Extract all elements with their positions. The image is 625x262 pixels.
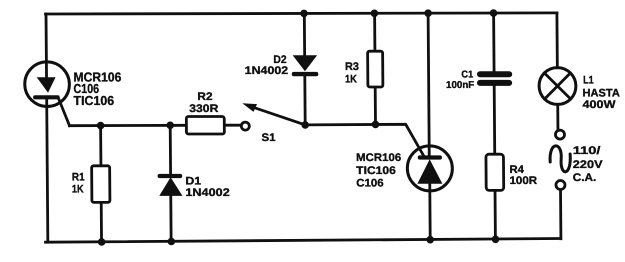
svg-text:S1: S1 (261, 132, 275, 144)
svg-text:TIC106: TIC106 (356, 165, 396, 177)
svg-text:100R: 100R (509, 175, 537, 187)
svg-text:330R: 330R (189, 103, 218, 115)
svg-text:L1: L1 (583, 74, 594, 86)
svg-text:400W: 400W (582, 99, 616, 111)
svg-text:HASTA: HASTA (582, 87, 620, 99)
svg-text:R3: R3 (345, 61, 359, 73)
svg-text:TIC106: TIC106 (73, 93, 114, 108)
svg-text:1K: 1K (72, 184, 84, 196)
svg-text:100nF: 100nF (446, 80, 474, 91)
svg-text:R2: R2 (197, 91, 212, 103)
svg-text:110/: 110/ (573, 145, 601, 157)
svg-text:D1: D1 (185, 176, 201, 188)
svg-text:C106: C106 (356, 177, 383, 189)
svg-text:1N4002: 1N4002 (185, 187, 229, 199)
svg-text:220V: 220V (573, 159, 604, 171)
svg-text:1N4002: 1N4002 (245, 65, 289, 77)
svg-text:C1: C1 (461, 69, 473, 80)
svg-text:C.A.: C.A. (573, 172, 597, 184)
svg-text:MCR106: MCR106 (356, 152, 401, 164)
svg-text:R1: R1 (72, 172, 85, 184)
svg-text:1K: 1K (345, 73, 357, 85)
